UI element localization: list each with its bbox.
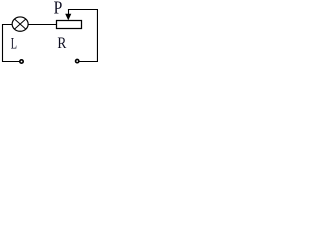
rheostat R body — [57, 21, 82, 29]
svg-text:P: P — [54, 0, 63, 18]
terminal right — [76, 59, 79, 62]
wire: wiper top horizontal — [68, 9, 98, 11]
background — [0, 0, 98, 65]
wire: left vertical — [2, 24, 4, 62]
wiper arrow shaft — [68, 10, 70, 15]
wire: right vertical — [96, 10, 98, 62]
wire: bottom right horizontal — [80, 61, 99, 63]
lamp L cross stroke 2 — [15, 19, 26, 29]
svg-text:R: R — [57, 35, 66, 52]
svg-text:L: L — [11, 34, 17, 52]
terminal left — [20, 60, 23, 63]
wire: bottom left horizontal — [2, 61, 19, 63]
lamp L cross stroke 1 — [15, 19, 26, 29]
lamp L body — [12, 17, 28, 31]
wire: top horizontal from corner to rheostat — [2, 24, 56, 26]
wiper arrowhead — [65, 14, 71, 21]
